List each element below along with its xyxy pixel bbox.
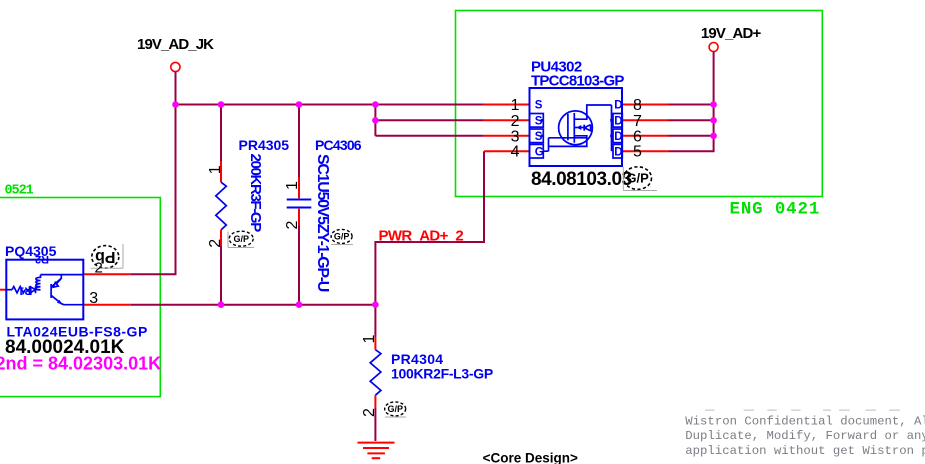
- pin stub PU4302 pin1: [483, 104, 530, 106]
- svg-text:100KR2F-L3-GP: 100KR2F-L3-GP: [391, 366, 493, 382]
- svg-text:19V_AD_JK: 19V_AD_JK: [137, 36, 214, 53]
- pin stub PU4302 pin6: [622, 135, 669, 137]
- svg-text:S: S: [535, 100, 543, 112]
- channel bar: [573, 113, 575, 143]
- svg-text:G/P: G/P: [334, 232, 350, 242]
- body diode: [584, 125, 590, 131]
- svg-text:D: D: [614, 100, 622, 112]
- wire bottom bus: [130, 304, 375, 306]
- pin stub PQ4305 pin2: [83, 273, 130, 275]
- pin name boxes right: [613, 114, 622, 128]
- svg-text:G/P: G/P: [233, 234, 249, 244]
- svg-text:D: D: [614, 131, 622, 143]
- svg-text:R2: R2: [35, 253, 49, 265]
- svg-text:2: 2: [511, 113, 520, 130]
- svg-text:19V_AD+: 19V_AD+: [701, 25, 762, 42]
- source stub with arrow: [574, 127, 587, 129]
- svg-text:4: 4: [511, 144, 520, 161]
- svg-text:R1: R1: [18, 285, 32, 297]
- wire top bus 19V_AD horizontal: [176, 104, 484, 106]
- svg-text:application without get Wistro: application without get Wistron pe: [685, 444, 925, 458]
- svg-text:G/P: G/P: [387, 404, 403, 414]
- source bottom routing: [543, 136, 587, 151]
- svg-text:ENG 0421: ENG 0421: [730, 201, 821, 220]
- svg-text:3: 3: [89, 290, 98, 307]
- svg-text:S: S: [535, 115, 543, 127]
- pin stub PU4302 pin7: [622, 119, 669, 121]
- mosfet circle: [559, 111, 593, 145]
- svg-text:2: 2: [361, 408, 378, 417]
- net PWR_AD+ 2 wiring: [375, 151, 484, 337]
- internal top rail to pin2: [41, 274, 84, 276]
- svg-text:2: 2: [95, 260, 103, 277]
- pin stub PQ4305 pin1 left edge: [0, 289, 6, 291]
- resistor PR4305: [216, 105, 227, 305]
- wire 19V_AD+ vertical: [669, 52, 714, 151]
- svg-text:PWR_AD+_2: PWR_AD+_2: [379, 228, 464, 245]
- mosfet pack PU4302 body: [530, 88, 623, 166]
- svg-text:2: 2: [207, 239, 224, 248]
- svg-text:200KR3F-GP: 200KR3F-GP: [247, 154, 264, 233]
- svg-text:PC4306: PC4306: [315, 137, 362, 153]
- pin stub PQ4305 pin3: [83, 304, 130, 306]
- svg-text:1: 1: [361, 334, 378, 343]
- pin stub PU4302 pin3: [483, 135, 530, 137]
- svg-text:PR4305: PR4305: [239, 137, 290, 153]
- svg-text:G: G: [535, 146, 544, 158]
- svg-text:G/P: G/P: [626, 171, 649, 186]
- pin stub PU4302 pin8: [622, 104, 669, 106]
- phototransistor: [50, 284, 52, 298]
- gate bar: [567, 114, 569, 140]
- emitter arrow: [57, 300, 62, 305]
- green page frame box ENG 0521: [0, 198, 160, 397]
- pin stub PU4302 pin2: [483, 119, 530, 121]
- svg-text:TPCC8103-GP: TPCC8103-GP: [531, 72, 624, 89]
- svg-text:<Core Design>: <Core Design>: [483, 451, 578, 464]
- light arrow into base: [56, 279, 61, 284]
- svg-text:D: D: [614, 115, 622, 127]
- wire 19V_AD_JK vertical drop to bus and to PQ4305 pin2: [175, 72, 177, 274]
- terminal circle 19V_AD+: [709, 43, 718, 52]
- resistor PR4304: [370, 337, 381, 441]
- svg-text:G 0521: G 0521: [0, 183, 34, 198]
- terminal circle 19V_AD_JK: [171, 62, 180, 71]
- internal S bar dots: [541, 119, 544, 122]
- confidential notice line remnants: [705, 410, 900, 411]
- svg-text:84.08103.03: 84.08103.03: [531, 169, 632, 190]
- svg-text:S: S: [535, 131, 543, 143]
- svg-text:7: 7: [633, 113, 642, 130]
- svg-text:2: 2: [284, 220, 301, 229]
- capacitor PC4306: [287, 105, 312, 305]
- confidential notice text: [685, 414, 925, 458]
- svg-text:Wistron Confidential document,: Wistron Confidential document, All: [685, 414, 925, 428]
- svg-text:D: D: [614, 146, 622, 158]
- svg-text:SC1U50V5ZY-1-GP-U: SC1U50V5ZY-1-GP-U: [314, 154, 331, 292]
- svg-text:1: 1: [511, 97, 520, 114]
- pin stub PU4302 pin5: [622, 150, 669, 152]
- svg-text:2nd = 84.02303.01K: 2nd = 84.02303.01K: [0, 354, 161, 374]
- ground symbol: [358, 443, 395, 459]
- optocoupler PQ4305 body: [6, 260, 83, 320]
- wire to PU4302 pin3: [375, 135, 483, 137]
- svg-text:8: 8: [633, 97, 642, 114]
- internal coil: [36, 275, 41, 290]
- internal LED: [25, 286, 40, 293]
- green page frame box ENG 0421: [456, 11, 823, 197]
- pin stub PU4302 pin4 G: [484, 150, 530, 152]
- icon Pb (rotated 180): [91, 244, 123, 268]
- svg-text:Duplicate, Modify, Forward or: Duplicate, Modify, Forward or any: [685, 429, 925, 443]
- wire PQ4305 pin2 to 19V vertical: [130, 273, 176, 275]
- svg-text:1: 1: [284, 181, 301, 190]
- icon G/P PR4305: [228, 231, 254, 247]
- svg-text:5: 5: [633, 144, 642, 161]
- wire branch vertical at x375: [374, 105, 376, 136]
- svg-text:1: 1: [207, 165, 224, 174]
- wire drain rows to vertical: [669, 104, 714, 106]
- drain stub to top rail: [574, 105, 611, 119]
- internal input wire: [6, 289, 12, 291]
- internal D bar: [611, 105, 613, 151]
- icon G/P large: [623, 167, 657, 191]
- icon G/P PC4306: [331, 229, 353, 244]
- icon G/P PR4304: [385, 402, 406, 417]
- internal resistor R1 zigzag: [12, 287, 25, 293]
- pin name boxes left: [530, 114, 544, 128]
- wire to PU4302 pin2: [375, 119, 483, 121]
